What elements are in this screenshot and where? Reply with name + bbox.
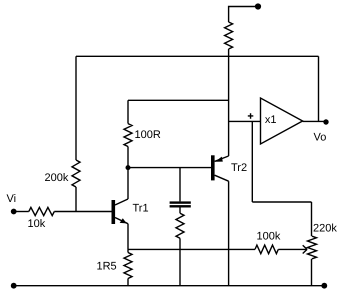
wire Tr1 emitter down [127, 224, 129, 250]
resistor below capacitor (unlabeled) [176, 213, 184, 238]
wire 220k bottom to ground rail [311, 259, 313, 286]
resistor (top, unlabeled) [225, 22, 233, 49]
wire junction to Tr2 base [128, 167, 211, 169]
wire + input down to pot wiper feed [251, 121, 253, 202]
svg-text:200k: 200k [45, 172, 69, 184]
svg-text:100R: 100R [135, 129, 161, 141]
wire 100R top [127, 100, 129, 123]
top rail wire [76, 55, 319, 57]
wire power terminal to top resistor [229, 7, 258, 23]
resistor 1R5 [124, 253, 132, 279]
potentiometer 220k [308, 236, 317, 259]
capacitor C (unlabeled) [170, 168, 191, 214]
wire rail down to op-amp output [318, 56, 320, 121]
svg-text:Vo: Vo [314, 132, 327, 144]
svg-text:Vi: Vi [7, 193, 17, 205]
svg-text:220k: 220k [313, 222, 337, 234]
svg-text:x1: x1 [265, 114, 277, 126]
wire Tr2 collector down to ground rail [228, 181, 230, 286]
wire 10k to Tr1 base [54, 211, 111, 213]
op-amp U1 (x1 buffer) [261, 98, 303, 144]
wiper arrow of 220k pot [303, 245, 307, 253]
wire junction up to 100R [127, 147, 129, 168]
wire 100R node to node A [128, 99, 229, 101]
wire op-amp output to Vo terminal [303, 120, 326, 122]
svg-text:10k: 10k [28, 218, 46, 230]
left rail wire [75, 56, 77, 160]
resistor 100R [124, 124, 132, 147]
transistor Q Tr1 (NPN) [112, 199, 129, 224]
wire across to 220k top [252, 201, 311, 203]
wire 1R5 top lead [127, 249, 129, 252]
wire op-amp non-inverting input [229, 120, 261, 122]
resistor 10k [29, 207, 55, 215]
output terminal Vo dot [323, 119, 328, 124]
svg-text:Tr1: Tr1 [133, 203, 149, 215]
svg-text:1R5: 1R5 [97, 261, 117, 273]
ground rail right terminal dot [321, 283, 327, 289]
wire emitter node to 100k (feedback wire) [128, 248, 255, 250]
power supply terminal dot [255, 3, 261, 9]
junction dot (Tr1 collector / Tr2 base / 100R) [126, 165, 131, 170]
svg-text:Tr2: Tr2 [231, 162, 247, 174]
ground rail left terminal dot [11, 283, 17, 289]
wire resistor chain to ground rail [179, 238, 181, 285]
wire down to 220k [311, 202, 313, 236]
ground rail wire [14, 285, 325, 287]
wire Vi terminal to 10k [14, 211, 29, 213]
wire 200k to input node [75, 187, 77, 212]
svg-text:100k: 100k [257, 231, 281, 243]
label + (non-inverting input) [248, 113, 254, 119]
transistor Q Tr2 (PNP) [211, 155, 229, 181]
wire top resistor down through rail to Tr2 emitter (node A) [228, 49, 230, 156]
input terminal Vi dot [11, 209, 17, 215]
wire 1R5 bottom to ground rail [127, 279, 129, 286]
wire Tr1 collector up to junction [127, 168, 129, 199]
wire 100k to pot wiper [278, 248, 306, 250]
resistor 200k [72, 160, 80, 187]
resistor 100k [255, 245, 278, 254]
